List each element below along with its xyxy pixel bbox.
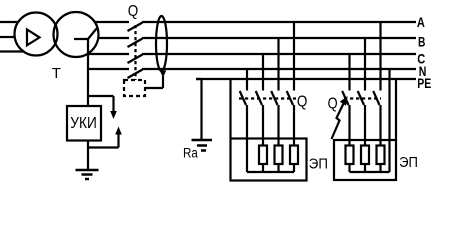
wire neutral riser from star point to UKI — [87, 39, 89, 106]
wye winding symbol — [74, 28, 97, 39]
svg-text:PE: PE — [417, 76, 431, 91]
breaker Q1 linkage (dashed) — [239, 97, 296, 99]
wire resistor bottoms to N bus right — [350, 164, 381, 172]
ground under UKI — [76, 169, 99, 172]
breaker Q main contact pole A — [128, 23, 143, 32]
wire UKI return branch — [88, 134, 119, 148]
breaker Q main contact pole B — [128, 39, 143, 48]
breaker contact C right group — [342, 91, 348, 105]
svg-text:B: B — [418, 34, 426, 49]
svg-text:Q: Q — [297, 93, 308, 110]
wire PE drop to left EP box — [229, 79, 231, 139]
wire feeder A left group — [293, 22, 295, 91]
transformer T primary circle — [15, 13, 58, 56]
svg-text:Q: Q — [128, 3, 139, 20]
resistor load 2 left — [275, 146, 283, 165]
breaker contact A right group — [373, 91, 379, 105]
svg-text:Q: Q — [328, 96, 338, 113]
breaker contact N left group — [240, 91, 246, 105]
wire feeder B right group — [364, 38, 366, 91]
svg-text:A: A — [417, 15, 425, 30]
wire input phase 1 — [0, 21, 18, 23]
breaker Q main contact pole C — [128, 55, 143, 64]
breaker contact B left group — [271, 91, 277, 105]
wire feeder N left group — [246, 69, 248, 91]
wire feeder A right group — [379, 22, 381, 91]
resistor load 1 right — [346, 146, 354, 165]
EP box left — [231, 139, 307, 181]
breaker contact C left group — [256, 91, 262, 105]
svg-text:УКИ: УКИ — [70, 115, 97, 132]
wire N bottom bus right — [350, 171, 390, 173]
svg-text:ЭП: ЭП — [399, 154, 418, 171]
wire PE riser to earth Ra — [196, 79, 202, 139]
resistor load 2 right — [361, 146, 369, 165]
wire bus C — [87, 53, 416, 55]
wire feeder C right group — [348, 54, 350, 91]
wire trip unit to N — [145, 76, 163, 88]
ground electrode Ra — [192, 139, 213, 142]
wire bus PE — [196, 78, 416, 80]
arrow down probe — [110, 111, 117, 119]
wire PE drop right group — [395, 79, 397, 140]
breaker contact A left group — [287, 91, 293, 105]
wire N drop right group — [388, 69, 390, 172]
arrow up return — [115, 127, 122, 135]
fault arrow lightning — [332, 104, 344, 140]
resistor load 3 left — [290, 146, 298, 165]
resistor load 1 left — [259, 146, 267, 165]
breaker Q2 linkage (dashed) — [344, 97, 381, 99]
cable marker ellipse — [156, 16, 167, 71]
resistor load 3 right — [377, 146, 385, 165]
svg-text:Т: Т — [52, 65, 61, 82]
wire bus B — [98, 37, 416, 39]
wire feeder C left group — [262, 54, 264, 91]
breaker contact B right group — [358, 91, 364, 105]
EP box right — [334, 140, 396, 180]
wire feeder B left group — [277, 38, 279, 91]
svg-text:ЭП: ЭП — [309, 156, 328, 173]
wire resistor bottoms to N bus left — [263, 164, 294, 172]
wire bus N — [88, 68, 416, 70]
breaker Q main linkage (dashed) — [134, 25, 136, 80]
transformer T secondary circle — [54, 12, 99, 57]
wire UKI probe out — [88, 96, 114, 112]
wire input phase 3 — [0, 50, 24, 52]
breaker Q main trip unit (dashed box) — [124, 80, 145, 96]
svg-text:Ra: Ra — [183, 146, 198, 161]
wire input phase 2 — [0, 36, 15, 38]
wire UKI ground stub — [87, 141, 89, 171]
arrow down from N to trip unit — [160, 71, 167, 78]
breaker Q main contact pole N — [128, 70, 143, 79]
wire bus A — [95, 21, 416, 23]
UKI box — [67, 106, 101, 141]
wire N bottom bus left — [247, 171, 294, 173]
delta winding symbol — [27, 30, 40, 46]
